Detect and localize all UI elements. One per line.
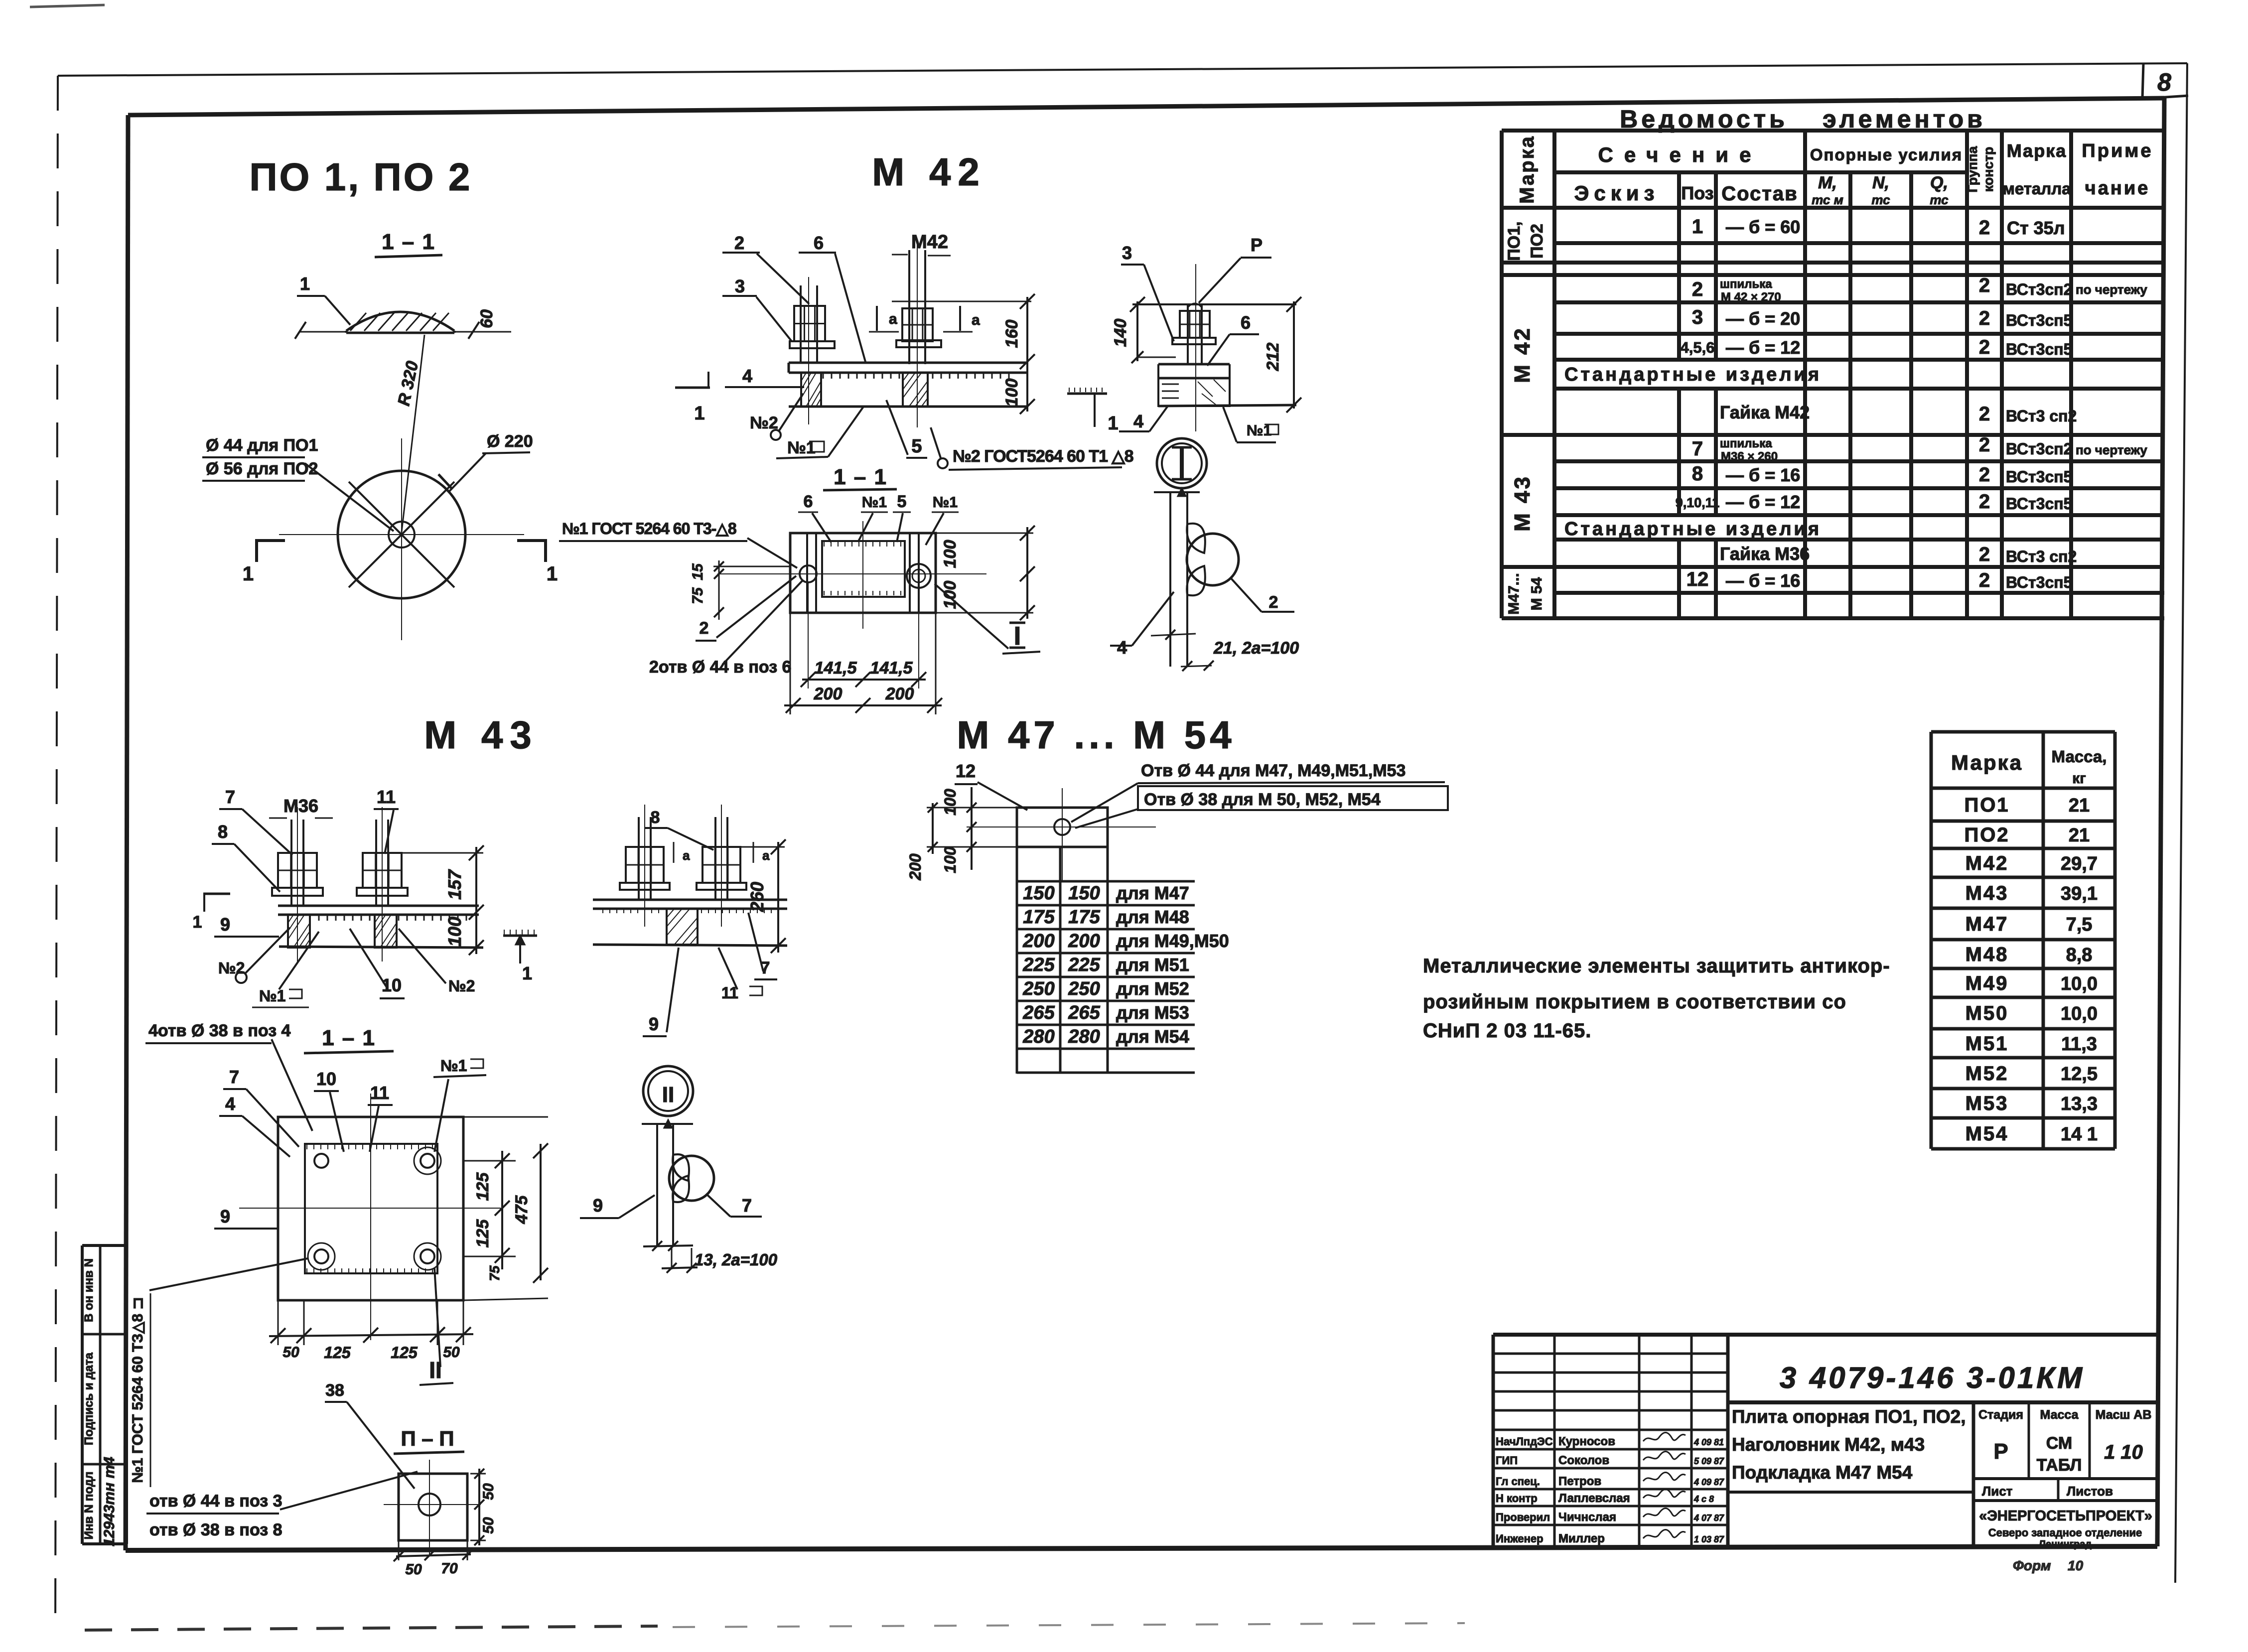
svg-text:8: 8 [2157, 68, 2171, 96]
svg-text:11,3: 11,3 [2061, 1034, 2097, 1055]
svg-text:Ст 35л: Ст 35л [2007, 218, 2065, 238]
svg-text:475: 475 [512, 1195, 531, 1225]
svg-text:Лаплевслая: Лаплевслая [1558, 1492, 1630, 1505]
svg-text:4: 4 [742, 366, 752, 386]
svg-text:№1: №1 [862, 494, 887, 511]
svg-text:10,0: 10,0 [2061, 973, 2098, 994]
svg-text:2: 2 [1979, 491, 1990, 513]
svg-text:200: 200 [1022, 931, 1054, 952]
svg-text:Отв Ø 44 для М47, М49,М51,М53: Отв Ø 44 для М47, М49,М51,М53 [1141, 761, 1405, 780]
svg-text:75: 75 [487, 1265, 502, 1281]
svg-text:8: 8 [1692, 463, 1703, 485]
svg-text:3: 3 [1692, 306, 1703, 328]
svg-text:М 43: М 43 [424, 713, 538, 757]
svg-text:2: 2 [1979, 544, 1990, 565]
svg-text:4: 4 [1117, 637, 1127, 658]
svg-text:М51: М51 [1966, 1033, 2009, 1055]
svg-text:Гл спец.: Гл спец. [1496, 1475, 1540, 1488]
svg-text:9: 9 [649, 1014, 659, 1034]
svg-text:Соколов: Соколов [1558, 1454, 1609, 1467]
svg-text:150: 150 [1023, 883, 1054, 904]
svg-text:3 4079-146 3-01КМ: 3 4079-146 3-01КМ [1780, 1361, 2085, 1394]
svg-text:12: 12 [1686, 568, 1709, 590]
svg-text:ВСт3сп2: ВСт3сп2 [2006, 280, 2072, 298]
svg-text:2: 2 [1979, 569, 1990, 591]
svg-text:Опорные усилия: Опорные усилия [1810, 145, 1963, 164]
svg-text:8: 8 [651, 808, 660, 827]
svg-text:Ø 220: Ø 220 [487, 432, 533, 451]
svg-text:2: 2 [1269, 593, 1278, 612]
svg-text:Петров: Петров [1558, 1475, 1601, 1488]
svg-text:Сечение: Сечение [1598, 143, 1762, 166]
svg-text:Ø 44 для ПО1: Ø 44 для ПО1 [206, 436, 318, 455]
svg-text:13, 2а=100: 13, 2а=100 [695, 1250, 778, 1269]
svg-text:Курносов: Курносов [1558, 1435, 1615, 1448]
svg-text:М53: М53 [1966, 1093, 2009, 1114]
svg-text:шпилька: шпилька [1720, 437, 1772, 450]
svg-text:Миллер: Миллер [1558, 1532, 1605, 1545]
svg-text:10,0: 10,0 [2061, 1003, 2098, 1024]
svg-text:— б = 16: — б = 16 [1726, 465, 1800, 485]
svg-text:10: 10 [316, 1069, 336, 1089]
svg-text:Масш АВ: Масш АВ [2096, 1408, 2152, 1422]
svg-text:«ЭНЕРГОСЕТЬПРОЕКТ»: «ЭНЕРГОСЕТЬПРОЕКТ» [1979, 1508, 2152, 1524]
svg-text:212: 212 [1264, 343, 1282, 372]
svg-text:ВСт3 сп2: ВСт3 сп2 [2006, 407, 2077, 425]
svg-text:Стандартные изделия: Стандартные изделия [1564, 364, 1822, 385]
svg-text:12,5: 12,5 [2061, 1064, 2098, 1085]
svg-text:5: 5 [897, 492, 907, 511]
svg-text:Стадия: Стадия [1978, 1408, 2023, 1422]
svg-text:100: 100 [444, 917, 465, 947]
svg-text:констр: констр [1981, 147, 1996, 192]
svg-text:2: 2 [1979, 307, 1990, 329]
svg-text:а: а [683, 848, 690, 863]
svg-text:Марка: Марка [1516, 135, 1538, 204]
svg-text:— б = 60: — б = 60 [1726, 217, 1800, 237]
svg-text:ПО 1, ПО 2: ПО 1, ПО 2 [250, 155, 472, 199]
svg-text:М36 × 260: М36 × 260 [1721, 450, 1778, 463]
svg-text:2: 2 [700, 619, 709, 638]
svg-text:4 с 8: 4 с 8 [1693, 1494, 1714, 1504]
svg-text:М 42 × 270: М 42 × 270 [1721, 290, 1781, 304]
svg-text:280: 280 [1022, 1026, 1054, 1047]
svg-text:250: 250 [1022, 978, 1054, 999]
svg-text:50: 50 [480, 1483, 497, 1500]
svg-text:М50: М50 [1966, 1002, 2009, 1024]
svg-text:по чертежу: по чертежу [2076, 442, 2147, 457]
svg-text:№1 ГОСТ 5264 60 Т3-△8: №1 ГОСТ 5264 60 Т3-△8 [562, 520, 736, 538]
svg-text:Проверил: Проверил [1496, 1511, 1550, 1523]
svg-text:1: 1 [1108, 413, 1118, 434]
svg-text:N,: N, [1872, 173, 1889, 192]
svg-text:а: а [762, 848, 770, 863]
svg-text:Р: Р [1993, 1439, 2008, 1464]
svg-text:отв Ø 44 в поз 3: отв Ø 44 в поз 3 [149, 1492, 282, 1511]
svg-text:1: 1 [300, 274, 310, 294]
svg-text:ВСт3сп5: ВСт3сп5 [2006, 468, 2072, 486]
svg-text:6: 6 [814, 233, 824, 253]
svg-text:100: 100 [941, 789, 959, 816]
svg-text:М47...: М47... [1506, 573, 1522, 614]
svg-text:2: 2 [1979, 275, 1990, 296]
svg-text:ТАБЛ: ТАБЛ [2037, 1456, 2082, 1475]
svg-text:а: а [972, 312, 980, 328]
svg-text:для М49,М50: для М49,М50 [1116, 931, 1229, 951]
svg-text:21: 21 [2069, 795, 2090, 816]
svg-text:1: 1 [694, 403, 704, 424]
svg-text:СНиП 2 03 11-65.: СНиП 2 03 11-65. [1423, 1020, 1591, 1042]
svg-text:1 03 87: 1 03 87 [1694, 1534, 1724, 1544]
svg-text:Группа: Группа [1965, 145, 1980, 192]
svg-text:для М52: для М52 [1116, 978, 1189, 999]
svg-text:по чертежу: по чертежу [2076, 282, 2147, 297]
svg-text:Марка: Марка [1951, 751, 2023, 774]
svg-text:Масса: Масса [2040, 1408, 2079, 1422]
svg-text:4,5,6: 4,5,6 [1681, 339, 1715, 356]
svg-text:ПО1,: ПО1, [1505, 221, 1524, 261]
svg-text:для М51: для М51 [1116, 955, 1189, 975]
svg-text:тс: тс [1930, 192, 1949, 207]
svg-text:№2: №2 [218, 959, 245, 977]
svg-text:1 – 1: 1 – 1 [322, 1026, 376, 1050]
svg-text:М42: М42 [911, 232, 948, 253]
svg-text:5: 5 [911, 436, 922, 457]
svg-text:100: 100 [1002, 379, 1021, 407]
svg-text:140: 140 [1111, 319, 1130, 347]
svg-text:ВСт3 сп2: ВСт3 сп2 [2006, 548, 2077, 565]
svg-text:М 47 ... М 54: М 47 ... М 54 [957, 713, 1235, 757]
svg-text:Стандартные изделия: Стандартные изделия [1564, 519, 1822, 540]
svg-text:Подпись и дата: Подпись и дата [82, 1352, 96, 1445]
svg-text:75: 75 [690, 587, 706, 604]
svg-text:9: 9 [220, 914, 230, 935]
svg-text:для М54: для М54 [1116, 1026, 1189, 1047]
svg-text:Ø 56 для ПО2: Ø 56 для ПО2 [206, 459, 318, 478]
svg-text:125: 125 [324, 1344, 351, 1362]
svg-text:2: 2 [734, 233, 744, 253]
svg-text:Эскиз: Эскиз [1574, 181, 1660, 205]
svg-text:100: 100 [941, 846, 959, 873]
svg-text:14 1: 14 1 [2061, 1124, 2098, 1145]
svg-text:7: 7 [225, 787, 235, 807]
svg-text:Состав: Состав [1721, 183, 1798, 205]
svg-text:Марка: Марка [2007, 140, 2067, 161]
svg-text:1 – 1: 1 – 1 [382, 230, 435, 254]
svg-text:200: 200 [885, 685, 914, 703]
svg-text:СМ: СМ [2046, 1434, 2072, 1453]
svg-text:№2: №2 [448, 977, 475, 995]
svg-text:200: 200 [906, 853, 924, 881]
svg-text:Инженер: Инженер [1496, 1532, 1544, 1545]
svg-text:13,3: 13,3 [2061, 1094, 2098, 1114]
svg-text:11: 11 [370, 1083, 389, 1103]
svg-text:7: 7 [229, 1067, 239, 1087]
svg-text:9,10,11: 9,10,11 [1676, 495, 1720, 510]
svg-text:29,7: 29,7 [2061, 853, 2098, 874]
svg-text:ГИП: ГИП [1496, 1454, 1518, 1467]
svg-text:для М53: для М53 [1116, 1002, 1189, 1023]
svg-text:1: 1 [193, 913, 202, 932]
svg-text:265: 265 [1068, 1002, 1100, 1023]
svg-text:39,1: 39,1 [2061, 883, 2098, 904]
svg-text:4 07 87: 4 07 87 [1693, 1513, 1724, 1523]
svg-text:150: 150 [1068, 883, 1100, 904]
svg-text:Плита опорная ПО1, ПО2,: Плита опорная ПО1, ПО2, [1732, 1406, 1966, 1427]
svg-text:Лист: Лист [1982, 1484, 2013, 1499]
svg-text:50: 50 [443, 1344, 460, 1361]
svg-text:200: 200 [1068, 931, 1100, 952]
svg-text:М47: М47 [1966, 913, 2009, 935]
svg-text:— б = 20: — б = 20 [1726, 308, 1800, 329]
svg-text:ВСт3сп5: ВСт3сп5 [2006, 340, 2072, 358]
svg-text:I: I [1014, 622, 1021, 651]
svg-text:тс: тс [1871, 192, 1890, 207]
svg-text:125: 125 [473, 1219, 492, 1248]
svg-text:1 – 1: 1 – 1 [834, 465, 887, 489]
svg-text:ПО1: ПО1 [1964, 794, 2009, 816]
svg-text:1: 1 [547, 563, 558, 585]
svg-text:Отв Ø 38 для М 50, М52, М54: Отв Ø 38 для М 50, М52, М54 [1144, 790, 1381, 809]
svg-text:для М48: для М48 [1116, 907, 1189, 927]
svg-text:№1: №1 [933, 494, 958, 511]
svg-text:М 43: М 43 [1510, 475, 1535, 532]
svg-text:141,5: 141,5 [870, 659, 913, 678]
svg-text:280: 280 [1068, 1026, 1100, 1047]
svg-text:260: 260 [747, 882, 767, 912]
svg-text:9: 9 [220, 1206, 230, 1227]
svg-text:7,5: 7,5 [2066, 914, 2093, 935]
svg-text:225: 225 [1068, 955, 1100, 975]
svg-text:4 09 87: 4 09 87 [1693, 1477, 1724, 1487]
svg-text:2: 2 [1692, 278, 1703, 300]
svg-text:шпилька: шпилька [1720, 277, 1772, 291]
svg-text:2: 2 [1979, 434, 1990, 456]
svg-text:12943тн т4: 12943тн т4 [101, 1457, 118, 1546]
svg-text:Р: Р [1251, 235, 1263, 255]
svg-text:М 54: М 54 [1529, 577, 1545, 610]
svg-text:2отв Ø 44 в поз 6: 2отв Ø 44 в поз 6 [649, 658, 791, 677]
svg-text:№2 ГОСТ5264 60 Т1 △8: №2 ГОСТ5264 60 Т1 △8 [953, 447, 1133, 466]
svg-text:12: 12 [956, 761, 976, 781]
svg-text:Чичнслая: Чичнслая [1558, 1511, 1616, 1524]
svg-text:R 320: R 320 [394, 359, 422, 408]
svg-text:НачЛпдЭС: НачЛпдЭС [1496, 1435, 1553, 1448]
svg-text:М42: М42 [1966, 852, 2009, 874]
svg-text:ПО2: ПО2 [1964, 824, 2009, 846]
svg-text:Гайка М42: Гайка М42 [1720, 402, 1810, 422]
svg-text:4: 4 [1133, 411, 1143, 431]
svg-text:Поз: Поз [1681, 183, 1713, 203]
svg-text:Листов: Листов [2067, 1484, 2113, 1499]
svg-text:4отв Ø 38 в поз 4: 4отв Ø 38 в поз 4 [148, 1021, 291, 1040]
svg-text:38: 38 [325, 1381, 344, 1400]
svg-text:отв Ø 38 в поз 8: отв Ø 38 в поз 8 [149, 1520, 282, 1539]
svg-text:тс м: тс м [1812, 192, 1843, 207]
svg-text:100: 100 [941, 581, 960, 609]
svg-text:6: 6 [1241, 312, 1251, 333]
svg-text:2: 2 [1979, 403, 1990, 425]
svg-text:5 09 87: 5 09 87 [1694, 1456, 1724, 1466]
svg-text:Гайка М36: Гайка М36 [1720, 544, 1810, 564]
svg-text:Масса,: Масса, [2052, 747, 2107, 766]
svg-text:6: 6 [804, 492, 813, 511]
svg-text:— б = 12: — б = 12 [1726, 337, 1800, 358]
svg-text:Северо западное отделение: Северо западное отделение [1988, 1526, 2142, 1539]
svg-text:ВСт3сп5: ВСт3сп5 [2006, 573, 2072, 591]
svg-text:розийным покрытием в соо: розийным покрытием в соответствии со [1423, 991, 1846, 1013]
svg-text:М 42: М 42 [1510, 326, 1535, 383]
svg-text:№1: №1 [259, 987, 285, 1005]
svg-text:15: 15 [690, 563, 706, 580]
svg-text:Подкладка М47 М54: Подкладка М47 М54 [1732, 1462, 1913, 1483]
svg-text:металла: металла [2002, 179, 2071, 198]
svg-text:50: 50 [405, 1561, 422, 1578]
svg-text:70: 70 [441, 1560, 458, 1577]
svg-text:125: 125 [473, 1172, 492, 1201]
svg-text:21, 2а=100: 21, 2а=100 [1213, 639, 1299, 658]
svg-text:Наголовник М42, м43: Наголовник М42, м43 [1732, 1434, 1925, 1455]
svg-text:4: 4 [225, 1094, 235, 1114]
svg-text:2: 2 [1979, 336, 1990, 358]
svg-text:21: 21 [2069, 825, 2090, 846]
svg-text:160: 160 [1002, 320, 1021, 348]
svg-text:— б = 16: — б = 16 [1726, 570, 1800, 591]
svg-text:Ленинград: Ленинград [2039, 1539, 2092, 1550]
svg-text:для М47: для М47 [1116, 883, 1189, 903]
svg-text:8: 8 [218, 822, 228, 842]
svg-text:М43: М43 [1966, 882, 2009, 904]
svg-text:175: 175 [1023, 907, 1055, 928]
svg-text:60: 60 [477, 309, 496, 328]
svg-text:100: 100 [941, 540, 960, 568]
svg-text:Q,: Q, [1930, 173, 1948, 192]
svg-text:1 10: 1 10 [2104, 1441, 2143, 1463]
svg-text:2: 2 [1979, 217, 1990, 239]
svg-text:200: 200 [814, 685, 843, 703]
svg-text:М54: М54 [1966, 1123, 2009, 1145]
svg-text:3: 3 [1122, 243, 1132, 263]
svg-text:7: 7 [742, 1195, 752, 1216]
svg-text:Инв N подл: Инв N подл [82, 1472, 96, 1540]
svg-text:4 09 81: 4 09 81 [1693, 1437, 1724, 1447]
svg-text:2: 2 [1979, 464, 1990, 486]
svg-text:125: 125 [391, 1344, 418, 1362]
svg-text:М49: М49 [1966, 972, 2009, 994]
svg-text:3: 3 [735, 276, 745, 296]
svg-text:50: 50 [282, 1344, 299, 1361]
svg-text:В он инв N: В он инв N [82, 1258, 96, 1322]
svg-text:М36: М36 [283, 796, 318, 816]
svg-text:141,5: 141,5 [814, 659, 857, 678]
svg-text:1: 1 [243, 563, 254, 585]
svg-text:ПО2: ПО2 [1528, 224, 1546, 259]
svg-text:8,8: 8,8 [2066, 945, 2093, 965]
svg-text:10: 10 [2068, 1558, 2084, 1573]
svg-text:а: а [889, 311, 897, 327]
svg-text:ВСт3сп2: ВСт3сп2 [2006, 440, 2072, 458]
svg-text:Форм: Форм [2013, 1558, 2051, 1573]
svg-text:250: 250 [1068, 978, 1100, 999]
svg-text:Приме: Приме [2082, 140, 2153, 161]
svg-text:Н контр: Н контр [1496, 1492, 1538, 1505]
svg-text:— б = 12: — б = 12 [1726, 492, 1800, 512]
svg-text:М,: М, [1818, 173, 1837, 192]
svg-text:М52: М52 [1966, 1063, 2009, 1085]
svg-text:265: 265 [1022, 1002, 1055, 1023]
svg-text:II: II [662, 1083, 674, 1107]
svg-text:50: 50 [480, 1517, 497, 1534]
svg-text:1: 1 [1692, 216, 1703, 238]
svg-text:175: 175 [1068, 907, 1100, 928]
svg-text:М 42: М 42 [872, 150, 986, 194]
svg-text:157: 157 [444, 869, 465, 900]
svg-text:кг: кг [2072, 770, 2086, 787]
svg-text:1: 1 [522, 963, 532, 983]
svg-text:9: 9 [593, 1195, 603, 1216]
svg-text:Металлические элементы защи: Металлические элементы защитить антикор- [1423, 955, 1890, 977]
svg-text:11: 11 [377, 787, 396, 807]
svg-text:№1 ГОСТ 5264 60 ТЗ△8 ⊐: №1 ГОСТ 5264 60 ТЗ△8 ⊐ [130, 1297, 146, 1483]
svg-text:№1: №1 [440, 1057, 467, 1075]
svg-text:ВСт3сп5: ВСт3сп5 [2006, 495, 2072, 513]
svg-text:чание: чание [2085, 178, 2150, 199]
svg-text:М48: М48 [1966, 944, 2009, 965]
svg-text:7: 7 [1692, 438, 1703, 460]
svg-text:ВСт3сп5: ВСт3сп5 [2006, 311, 2072, 329]
svg-text:П – П: П – П [401, 1427, 454, 1450]
svg-text:225: 225 [1022, 955, 1055, 975]
